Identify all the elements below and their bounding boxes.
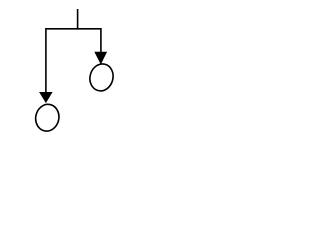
wire: horizontal rail with left and right drops bbox=[46, 29, 101, 92]
arrowhead: left edge bbox=[39, 92, 53, 103]
node: right ellipse bbox=[87, 61, 116, 93]
arrowhead: right edge bbox=[94, 52, 107, 65]
node: left ellipse bbox=[33, 102, 61, 133]
wire: top stub bbox=[77, 9, 79, 30]
